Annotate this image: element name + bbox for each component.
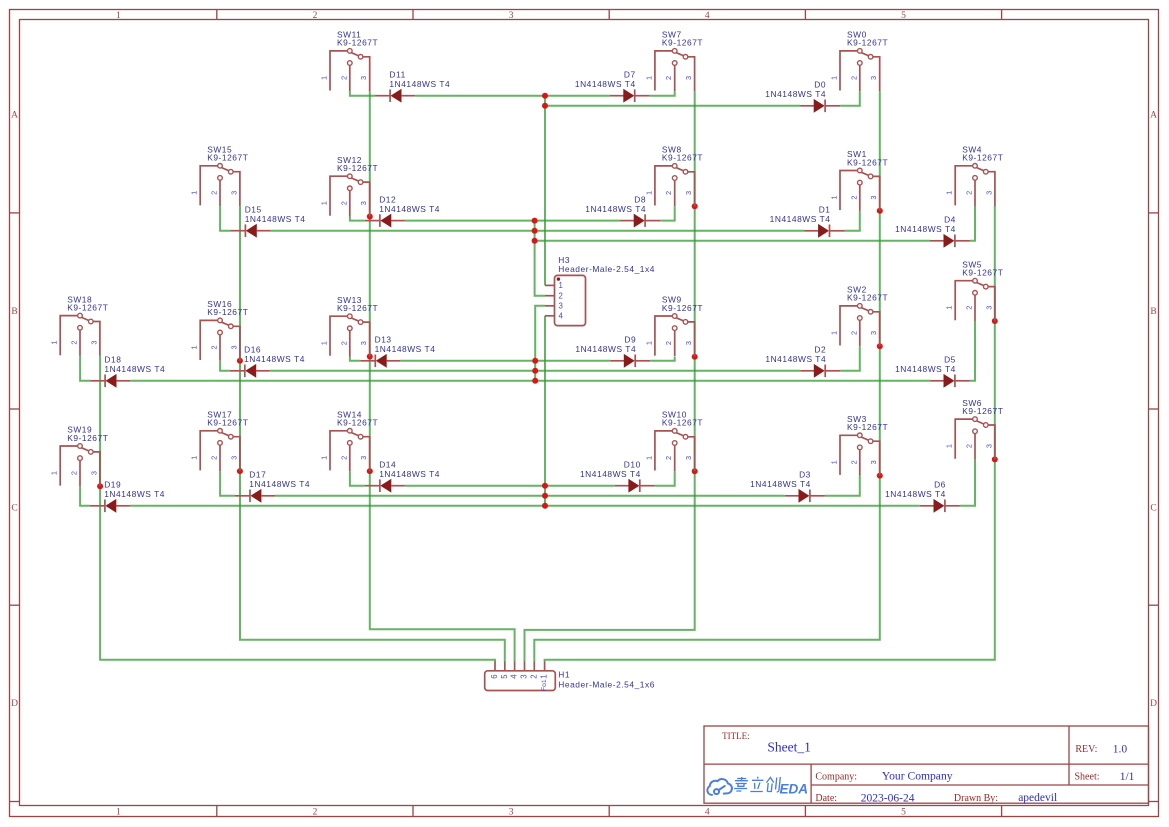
wire SW19 pin2 to D19 bbox=[80, 486, 90, 506]
wire D7 to SW7 pin2 (row1) bbox=[650, 91, 675, 96]
svg-text:1: 1 bbox=[644, 456, 653, 460]
junction row3 at (535,371) bbox=[532, 368, 538, 374]
svg-text:4: 4 bbox=[559, 312, 564, 321]
svg-text:1N4148WS T4: 1N4148WS T4 bbox=[379, 469, 440, 479]
svg-text:3: 3 bbox=[520, 674, 529, 678]
svg-text:K9-1267T: K9-1267T bbox=[662, 303, 703, 313]
svg-text:3: 3 bbox=[359, 201, 368, 205]
svg-text:K9-1267T: K9-1267T bbox=[847, 157, 888, 167]
svg-text:3: 3 bbox=[684, 456, 693, 460]
diode D6 bbox=[885, 480, 960, 513]
svg-text:1: 1 bbox=[320, 201, 329, 205]
svg-text:2: 2 bbox=[210, 345, 219, 349]
switch SW18 bbox=[50, 294, 109, 356]
svg-text:REV:: REV: bbox=[1075, 744, 1097, 755]
svg-text:Date:: Date: bbox=[815, 793, 837, 804]
switch SW8 bbox=[644, 145, 703, 207]
wire SW13 pin2 to D13 (row3) bbox=[350, 357, 360, 361]
svg-text:D2: D2 bbox=[814, 345, 826, 355]
junction row2 at (535,231) bbox=[532, 228, 538, 234]
svg-text:3: 3 bbox=[984, 306, 993, 310]
wire row2 to H3 pin2 bbox=[535, 221, 545, 296]
wire row2 branch to D4 bbox=[535, 240, 930, 242]
svg-text:K9-1267T: K9-1267T bbox=[337, 38, 378, 48]
junction SW17 pin3 bbox=[237, 468, 243, 474]
svg-text:3: 3 bbox=[869, 460, 878, 464]
junction SW5 pin3 bbox=[992, 318, 998, 324]
svg-text:4: 4 bbox=[705, 808, 710, 818]
pin 5 of H1 bbox=[504, 661, 506, 670]
svg-text:3: 3 bbox=[684, 76, 693, 80]
svg-text:1: 1 bbox=[559, 281, 563, 290]
wire D2 to SW2 pin2 bbox=[840, 346, 860, 371]
diode D2 bbox=[765, 345, 840, 378]
svg-text:D19: D19 bbox=[104, 480, 121, 490]
diode D17 bbox=[235, 470, 310, 503]
svg-text:3: 3 bbox=[359, 341, 368, 345]
svg-text:1: 1 bbox=[50, 341, 59, 345]
switch SW9 bbox=[644, 295, 703, 357]
svg-text:K9-1267T: K9-1267T bbox=[962, 268, 1003, 278]
svg-text:D12: D12 bbox=[379, 194, 396, 204]
svg-text:1N4148WS T4: 1N4148WS T4 bbox=[750, 479, 811, 489]
svg-text:K9-1267T: K9-1267T bbox=[962, 406, 1003, 416]
svg-text:C: C bbox=[11, 503, 17, 513]
svg-text:1: 1 bbox=[644, 76, 653, 80]
svg-text:K9-1267T: K9-1267T bbox=[67, 302, 108, 312]
svg-text:3: 3 bbox=[89, 341, 98, 345]
wire row1 branch to D0 bbox=[545, 105, 800, 107]
svg-text:2: 2 bbox=[664, 341, 673, 345]
junction row1 branch at (545,106) bbox=[542, 103, 548, 109]
svg-text:2: 2 bbox=[210, 191, 219, 195]
svg-text:1N4148WS T4: 1N4148WS T4 bbox=[379, 204, 440, 214]
diode D0 bbox=[765, 80, 840, 113]
wire column 6 to H1 pin1 bbox=[545, 206, 995, 662]
svg-text:3: 3 bbox=[229, 456, 238, 460]
junction SW12 pin3 bbox=[367, 214, 373, 220]
wire D1 to SW1 pin2 bbox=[845, 211, 860, 231]
svg-text:K9-1267T: K9-1267T bbox=[67, 433, 108, 443]
svg-text:2: 2 bbox=[210, 456, 219, 460]
svg-text:2: 2 bbox=[313, 808, 318, 818]
svg-text:2023-06-24: 2023-06-24 bbox=[861, 792, 915, 804]
switch SW4 bbox=[945, 145, 1004, 207]
svg-text:TITLE:: TITLE: bbox=[722, 731, 750, 741]
svg-text:1N4148WS T4: 1N4148WS T4 bbox=[249, 479, 310, 489]
wire row3 net D13 to D9 bbox=[400, 360, 610, 362]
wire row1 net D11 to D7 bbox=[415, 95, 610, 97]
diode D5 bbox=[895, 355, 970, 388]
svg-text:2: 2 bbox=[849, 331, 858, 335]
svg-text:1N4148WS T4: 1N4148WS T4 bbox=[244, 354, 305, 364]
svg-text:1: 1 bbox=[945, 444, 954, 448]
svg-text:D11: D11 bbox=[389, 69, 405, 79]
svg-text:1: 1 bbox=[830, 195, 839, 199]
svg-text:1: 1 bbox=[116, 11, 121, 21]
svg-text:B: B bbox=[1150, 307, 1156, 317]
svg-text:D: D bbox=[1150, 699, 1157, 709]
junction SW16 pin3 bbox=[237, 358, 243, 364]
svg-text:D15: D15 bbox=[245, 204, 262, 214]
svg-text:D6: D6 bbox=[934, 480, 946, 490]
wire D10 to SW10 pin2 bbox=[655, 471, 675, 486]
wire H3 pin4 to row4 bbox=[544, 316, 546, 506]
svg-text:K9-1267T: K9-1267T bbox=[847, 293, 888, 303]
wire row1 to H3 pin1 bbox=[544, 96, 546, 286]
svg-text:D4: D4 bbox=[944, 215, 956, 225]
wire SW14 pin2 to D14 (row4) bbox=[350, 471, 365, 486]
switch SW13 bbox=[320, 295, 379, 357]
diode D18 bbox=[90, 355, 165, 388]
svg-text:1N4148WS T4: 1N4148WS T4 bbox=[389, 79, 450, 89]
svg-text:1N4148WS T4: 1N4148WS T4 bbox=[895, 364, 956, 374]
svg-text:2: 2 bbox=[664, 456, 673, 460]
wire SW12 pin2 to D12 (row2) bbox=[350, 217, 365, 221]
diode D10 bbox=[580, 459, 655, 492]
svg-text:1: 1 bbox=[830, 76, 839, 80]
svg-text:D13: D13 bbox=[375, 335, 392, 345]
junction row2 at (535,221) bbox=[532, 218, 538, 224]
junction row4 at (545,486) bbox=[542, 483, 548, 489]
wire row3 net D18 to D5 bbox=[130, 380, 930, 382]
diode D7 bbox=[575, 69, 650, 102]
svg-text:K9-1267T: K9-1267T bbox=[847, 38, 888, 48]
switch SW17 bbox=[190, 410, 249, 472]
svg-text:3: 3 bbox=[869, 76, 878, 80]
diode D1 bbox=[770, 205, 845, 238]
wire D5 to SW5 pin2 bbox=[970, 321, 975, 381]
diode D4 bbox=[895, 215, 970, 248]
svg-text:3: 3 bbox=[359, 76, 368, 80]
svg-text:K9-1267T: K9-1267T bbox=[207, 418, 248, 428]
svg-text:1: 1 bbox=[116, 808, 121, 818]
title block bbox=[704, 726, 1149, 804]
switch SW16 bbox=[190, 299, 249, 361]
svg-text:1: 1 bbox=[945, 306, 954, 310]
svg-text:Your Company: Your Company bbox=[882, 769, 953, 782]
junction row1/H3 net at (545,96) bbox=[542, 93, 548, 99]
svg-text:1N4148WS T4: 1N4148WS T4 bbox=[895, 224, 956, 234]
logo text 嘉立创EDA bbox=[734, 777, 781, 792]
svg-text:A: A bbox=[11, 111, 18, 121]
switch SW12 bbox=[320, 155, 379, 217]
svg-text:Sheet_1: Sheet_1 bbox=[767, 739, 811, 754]
svg-text:3: 3 bbox=[509, 808, 514, 818]
switch SW14 bbox=[320, 410, 379, 472]
junction SW3 pin3 bbox=[877, 473, 883, 479]
header H1 bbox=[485, 661, 655, 691]
svg-text:EDA: EDA bbox=[780, 782, 809, 797]
pin 1 of H1 bbox=[544, 661, 546, 670]
wire D6 to SW6 pin2 bbox=[960, 459, 975, 505]
wire SW11 pin2 to D11 (row1) bbox=[350, 91, 375, 96]
svg-text:3: 3 bbox=[869, 331, 878, 335]
svg-text:1N4148WS T4: 1N4148WS T4 bbox=[580, 469, 641, 479]
svg-text:D7: D7 bbox=[624, 69, 636, 79]
svg-text:K9-1267T: K9-1267T bbox=[847, 422, 888, 432]
svg-text:1N4148WS T4: 1N4148WS T4 bbox=[575, 344, 636, 354]
svg-text:K9-1267T: K9-1267T bbox=[662, 153, 703, 163]
svg-text:1.0: 1.0 bbox=[1113, 744, 1128, 756]
switch SW19 bbox=[50, 425, 109, 487]
svg-text:1N4148WS T4: 1N4148WS T4 bbox=[375, 344, 436, 354]
svg-text:1N4148WS T4: 1N4148WS T4 bbox=[765, 354, 826, 364]
svg-text:2: 2 bbox=[849, 460, 858, 464]
svg-text:1: 1 bbox=[320, 341, 329, 345]
pin 2 of H1 bbox=[533, 661, 535, 670]
svg-text:2: 2 bbox=[339, 341, 348, 345]
wire column 4 to H1 pin3 bbox=[525, 91, 695, 661]
wire row3 net D16 to D2 bbox=[270, 370, 800, 372]
svg-text:A: A bbox=[1150, 111, 1157, 121]
svg-text:3: 3 bbox=[869, 195, 878, 199]
svg-text:D9: D9 bbox=[624, 335, 636, 345]
wire SW15 pin2 to D15 bbox=[220, 206, 230, 231]
switch SW0 bbox=[830, 30, 889, 92]
svg-text:1N4148WS T4: 1N4148WS T4 bbox=[245, 214, 306, 224]
svg-text:K9-1267T: K9-1267T bbox=[337, 163, 378, 173]
diode D3 bbox=[750, 470, 825, 503]
junction SW14 pin3 bbox=[367, 468, 373, 474]
junction row3 at (535,361) bbox=[532, 358, 538, 364]
diode D16 bbox=[230, 345, 305, 378]
svg-text:1N4148WS T4: 1N4148WS T4 bbox=[104, 489, 165, 499]
junction SW6 pin3 bbox=[992, 456, 998, 462]
diode D12 bbox=[365, 194, 440, 227]
junction SW8 pin3 bbox=[692, 203, 698, 209]
svg-text:1: 1 bbox=[320, 76, 329, 80]
svg-text:K9-1267T: K9-1267T bbox=[662, 38, 703, 48]
svg-text:Drawn By:: Drawn By: bbox=[954, 793, 998, 804]
svg-text:5: 5 bbox=[901, 808, 906, 818]
svg-text:Header-Male-2.54_1x6: Header-Male-2.54_1x6 bbox=[558, 679, 655, 689]
wire row4 net D19 to D6 bbox=[130, 505, 920, 507]
wire column 2 to H1 pin5 bbox=[240, 206, 505, 661]
switch SW6 bbox=[945, 398, 1004, 460]
svg-text:5: 5 bbox=[500, 674, 509, 679]
pin 1 of H3 bbox=[545, 284, 555, 286]
diode D19 bbox=[90, 480, 165, 513]
svg-text:3: 3 bbox=[509, 11, 514, 21]
svg-text:H1: H1 bbox=[558, 670, 570, 680]
svg-text:3: 3 bbox=[684, 191, 693, 195]
svg-text:3: 3 bbox=[559, 302, 563, 311]
junction row3 at (535,381) bbox=[532, 378, 538, 384]
wire D8 to SW8 pin2 bbox=[660, 206, 675, 220]
svg-text:K9-1267T: K9-1267T bbox=[207, 153, 248, 163]
diode D13 bbox=[360, 335, 435, 368]
svg-text:K9-1267T: K9-1267T bbox=[662, 418, 703, 428]
svg-text:4: 4 bbox=[705, 11, 710, 21]
wire row4 net D14 to D10 bbox=[405, 485, 615, 487]
wire row2 net D15 to D1 bbox=[270, 230, 804, 232]
svg-text:1: 1 bbox=[644, 341, 653, 345]
header H3 bbox=[545, 255, 655, 326]
svg-text:D1: D1 bbox=[819, 205, 831, 215]
svg-text:D3: D3 bbox=[799, 470, 811, 480]
svg-text:D8: D8 bbox=[634, 194, 646, 204]
junction SW13 pin3 bbox=[367, 354, 373, 360]
svg-text:2: 2 bbox=[529, 674, 538, 678]
svg-text:3: 3 bbox=[984, 191, 993, 195]
svg-text:D14: D14 bbox=[379, 459, 396, 469]
svg-text:Header-Male-2.54_1x4: Header-Male-2.54_1x4 bbox=[558, 264, 655, 274]
svg-text:2: 2 bbox=[313, 11, 318, 21]
svg-text:5: 5 bbox=[901, 11, 906, 21]
svg-text:1: 1 bbox=[830, 460, 839, 464]
diode D14 bbox=[365, 459, 440, 492]
diode D8 bbox=[585, 194, 660, 227]
svg-text:2: 2 bbox=[965, 306, 974, 310]
junction row4 at (545,506) bbox=[542, 503, 548, 509]
svg-text:K9-1267T: K9-1267T bbox=[207, 307, 248, 317]
svg-text:K9-1267T: K9-1267T bbox=[337, 418, 378, 428]
svg-text:2: 2 bbox=[339, 76, 348, 80]
svg-text:D17: D17 bbox=[249, 470, 266, 480]
wire SW18 pin2 to D18 bbox=[80, 356, 90, 381]
svg-text:2: 2 bbox=[559, 292, 563, 301]
svg-text:3: 3 bbox=[984, 444, 993, 448]
svg-text:K9-1267T: K9-1267T bbox=[962, 153, 1003, 163]
junction SW1 pin3 bbox=[877, 208, 883, 214]
logo cloud icon bbox=[707, 779, 732, 795]
svg-text:apedevil: apedevil bbox=[1018, 792, 1057, 804]
svg-text:1N4148WS T4: 1N4148WS T4 bbox=[585, 204, 646, 214]
svg-text:3: 3 bbox=[89, 471, 98, 475]
pin 3 of H1 bbox=[524, 661, 526, 670]
svg-text:D16: D16 bbox=[244, 345, 261, 355]
svg-text:1: 1 bbox=[830, 331, 839, 335]
svg-text:1N4148WS T4: 1N4148WS T4 bbox=[104, 364, 165, 374]
diode D11 bbox=[375, 69, 450, 102]
svg-text:2: 2 bbox=[339, 201, 348, 205]
svg-text:D18: D18 bbox=[104, 355, 121, 365]
svg-text:2: 2 bbox=[664, 191, 673, 195]
svg-text:D: D bbox=[11, 699, 18, 709]
switch SW5 bbox=[945, 259, 1004, 321]
svg-text:B: B bbox=[11, 307, 17, 317]
diode D9 bbox=[575, 335, 650, 368]
pin 3 of H3 bbox=[545, 305, 555, 307]
switch SW3 bbox=[830, 414, 889, 476]
wire column 3 to H1 pin4 bbox=[370, 91, 515, 661]
svg-text:K9-1267T: K9-1267T bbox=[337, 303, 378, 313]
svg-text:C: C bbox=[1150, 503, 1156, 513]
pin 2 of H3 bbox=[545, 295, 555, 297]
diode D15 bbox=[230, 204, 305, 237]
switch SW15 bbox=[190, 145, 249, 207]
pin 4 of H3 bbox=[545, 315, 555, 317]
wire column 5 to H1 pin2 bbox=[534, 91, 880, 661]
svg-text:2: 2 bbox=[70, 471, 79, 475]
svg-text:1: 1 bbox=[540, 674, 549, 678]
wire row4 net D17 to D3 bbox=[275, 495, 785, 497]
svg-text:1: 1 bbox=[945, 191, 954, 195]
junction row4 at (545,496) bbox=[542, 493, 548, 499]
svg-text:4: 4 bbox=[510, 674, 519, 679]
wire SW17 pin2 to D17 bbox=[220, 471, 235, 496]
wire D9 to SW9 pin2 bbox=[650, 357, 675, 361]
svg-text:1: 1 bbox=[190, 345, 199, 349]
svg-text:6: 6 bbox=[490, 674, 499, 678]
svg-text:2: 2 bbox=[965, 444, 974, 448]
switch SW11 bbox=[320, 30, 379, 92]
svg-text:2: 2 bbox=[339, 456, 348, 460]
wire D0 to SW0 pin2 bbox=[840, 91, 860, 106]
svg-text:2: 2 bbox=[849, 195, 858, 199]
switch SW1 bbox=[830, 149, 889, 211]
svg-text:D10: D10 bbox=[624, 459, 641, 469]
junction row2 at (535,241) bbox=[532, 238, 538, 244]
switch SW2 bbox=[830, 285, 889, 347]
svg-text:2: 2 bbox=[965, 191, 974, 195]
svg-text:2: 2 bbox=[849, 76, 858, 80]
wire SW16 pin2 to D16 bbox=[220, 361, 230, 371]
wire H3 pin3 to row3 bbox=[535, 306, 545, 381]
pin 4 of H1 bbox=[514, 661, 516, 670]
svg-text:1: 1 bbox=[50, 471, 59, 475]
svg-text:3: 3 bbox=[229, 345, 238, 349]
svg-text:1N4148WS T4: 1N4148WS T4 bbox=[575, 79, 636, 89]
wire D4 to SW4 pin2 bbox=[970, 206, 975, 241]
switch SW7 bbox=[644, 30, 703, 92]
svg-text:1: 1 bbox=[190, 191, 199, 195]
wire D3 to SW3 pin2 bbox=[825, 476, 860, 496]
pin 6 of H1 bbox=[494, 661, 496, 670]
wire row2 net D12 to D8 bbox=[405, 220, 620, 222]
junction SW9 pin3 bbox=[692, 354, 698, 360]
switch SW10 bbox=[644, 410, 703, 472]
svg-text:Fo1: Fo1 bbox=[541, 679, 548, 691]
svg-text:D0: D0 bbox=[814, 80, 826, 90]
svg-text:3: 3 bbox=[684, 341, 693, 345]
svg-text:1: 1 bbox=[320, 456, 329, 460]
svg-text:1/1: 1/1 bbox=[1120, 771, 1135, 783]
svg-text:1: 1 bbox=[190, 456, 199, 460]
svg-text:D5: D5 bbox=[944, 355, 956, 365]
svg-text:2: 2 bbox=[70, 341, 79, 345]
svg-text:3: 3 bbox=[229, 191, 238, 195]
junction SW19 pin3 bbox=[97, 483, 103, 489]
junction SW10 pin3 bbox=[692, 468, 698, 474]
svg-text:1N4148WS T4: 1N4148WS T4 bbox=[765, 89, 826, 99]
svg-text:Company:: Company: bbox=[815, 772, 857, 783]
svg-text:1N4148WS T4: 1N4148WS T4 bbox=[770, 214, 831, 224]
svg-text:1N4148WS T4: 1N4148WS T4 bbox=[885, 489, 946, 499]
svg-text:2: 2 bbox=[664, 76, 673, 80]
wire column 1 to H1 pin6 bbox=[100, 356, 495, 662]
svg-text:3: 3 bbox=[359, 456, 368, 460]
svg-text:Sheet:: Sheet: bbox=[1075, 772, 1100, 783]
junction SW2 pin3 bbox=[877, 343, 883, 349]
